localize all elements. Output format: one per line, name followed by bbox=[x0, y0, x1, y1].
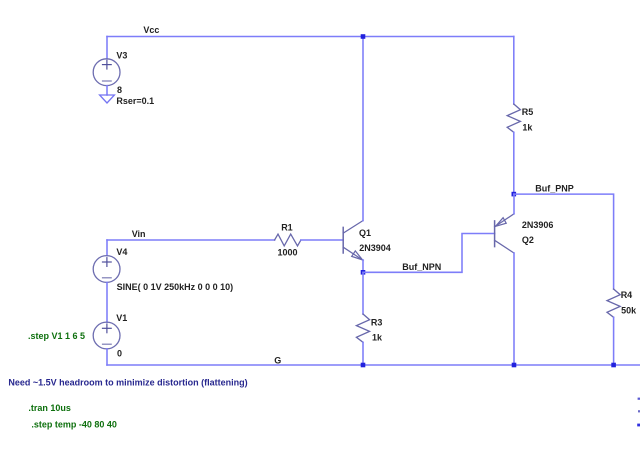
svg-text:50k: 50k bbox=[621, 306, 637, 316]
clipped text mark 3 at right edge bbox=[637, 424, 640, 427]
wire Q2 emitter up to Buf_PNP bbox=[513, 194, 515, 214]
wire Vin rail from V4 to R1 bbox=[107, 239, 275, 241]
svg-text:.tran 10us: .tran 10us bbox=[28, 403, 71, 413]
resistor R4 bbox=[607, 289, 620, 317]
svg-text:Vin: Vin bbox=[132, 229, 146, 239]
svg-text:2N3904: 2N3904 bbox=[359, 243, 391, 253]
transistor Q2 bbox=[495, 214, 514, 253]
svg-text:R3: R3 bbox=[371, 317, 383, 327]
svg-text:2N3906: 2N3906 bbox=[522, 220, 554, 230]
wire Buf_PNP to R4 bbox=[514, 194, 614, 289]
resistor R1 bbox=[275, 234, 301, 246]
junction Buf_NPN bbox=[361, 270, 366, 275]
wire bottom rail G bbox=[107, 364, 640, 366]
wire V3 bottom to ground bbox=[106, 86, 108, 95]
svg-text:R5: R5 bbox=[522, 107, 534, 117]
svg-text:Buf_NPN: Buf_NPN bbox=[402, 262, 441, 272]
wire Vcc rail down to R5 bbox=[513, 37, 515, 105]
svg-text:Buf_PNP: Buf_PNP bbox=[535, 183, 574, 193]
svg-text:8: 8 bbox=[117, 85, 122, 95]
V3 plus sign bbox=[103, 60, 112, 69]
svg-text:0: 0 bbox=[117, 348, 122, 358]
wire Q1 emitter to R3 bbox=[362, 272, 364, 314]
V1 minus sign bbox=[103, 343, 112, 345]
svg-text:Rser=0.1: Rser=0.1 bbox=[116, 96, 154, 106]
svg-text:.step V1 1 6 5: .step V1 1 6 5 bbox=[28, 331, 85, 341]
svg-text:V1: V1 bbox=[116, 313, 127, 323]
svg-text:V3: V3 bbox=[116, 51, 127, 61]
wire V1 bottom to ground rail bbox=[106, 349, 108, 365]
svg-text:1000: 1000 bbox=[278, 247, 298, 257]
resistor R3 bbox=[356, 314, 369, 342]
wire V4 to V1 bbox=[106, 282, 108, 322]
svg-text:1k: 1k bbox=[522, 123, 533, 133]
V4 minus sign bbox=[103, 277, 112, 279]
wire top rail Vcc from V3 to R5 branch bbox=[107, 36, 514, 38]
junction Q2 collector / G rail bbox=[512, 363, 517, 368]
wire Q2 collector down to G rail bbox=[513, 253, 515, 365]
svg-text:G: G bbox=[274, 356, 281, 366]
junction R3 / G rail bbox=[361, 363, 366, 368]
svg-text:SINE( 0 1V 250kHz 0 0 0 10): SINE( 0 1V 250kHz 0 0 0 10) bbox=[117, 282, 234, 292]
junction Vcc / Q1 collector bbox=[361, 34, 366, 39]
svg-text:.step temp -40 80 40: .step temp -40 80 40 bbox=[31, 419, 117, 429]
transistor Q1 bbox=[343, 221, 363, 260]
voltage source V4 bbox=[93, 256, 120, 283]
junction R4 / G rail bbox=[611, 363, 616, 368]
wire V3 top to rail bbox=[106, 37, 108, 59]
svg-text:1k: 1k bbox=[372, 333, 383, 343]
wire R5 to Q2 emitter bbox=[513, 132, 515, 194]
wire R4 to G rail bbox=[613, 317, 615, 365]
wire Q1 collector up to Vcc rail bbox=[362, 37, 364, 221]
wire Q1 emitter down bbox=[362, 260, 364, 272]
resistor R5 bbox=[507, 104, 520, 132]
svg-text:Need ~1.5V headroom to minimiz: Need ~1.5V headroom to minimize distorti… bbox=[8, 378, 247, 388]
voltage source V3 bbox=[93, 59, 120, 86]
V3 minus sign bbox=[103, 80, 112, 82]
V1 plus sign bbox=[103, 324, 112, 333]
wire R1 to Q1 base bbox=[301, 239, 343, 241]
clipped text mark 2 at right edge bbox=[638, 410, 640, 412]
svg-text:V4: V4 bbox=[116, 247, 127, 257]
voltage source V1 bbox=[93, 322, 120, 349]
junction Buf_PNP bbox=[512, 192, 517, 197]
wire Buf_NPN to Q2 base bbox=[363, 234, 495, 273]
svg-text:Q1: Q1 bbox=[359, 228, 371, 238]
clipped text mark 1 at right edge bbox=[638, 398, 640, 400]
svg-text:Q2: Q2 bbox=[522, 235, 534, 245]
wire R3 to G rail bbox=[362, 342, 364, 365]
V4 plus sign bbox=[103, 258, 112, 267]
ground bbox=[100, 95, 115, 103]
svg-text:Vcc: Vcc bbox=[143, 25, 159, 35]
svg-text:R4: R4 bbox=[621, 290, 633, 300]
wire V4 top bbox=[106, 240, 108, 256]
svg-text:R1: R1 bbox=[281, 222, 293, 232]
